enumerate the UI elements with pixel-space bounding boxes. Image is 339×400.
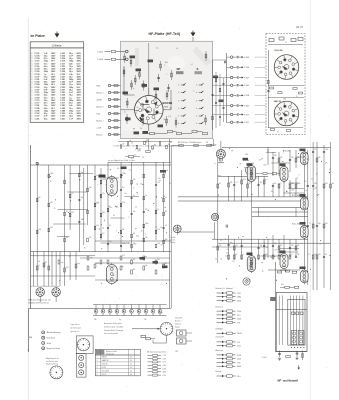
svg-text:40 n: 40 n	[69, 68, 73, 71]
svg-text:0,1: 0,1	[129, 169, 131, 171]
svg-text:HF: HF	[39, 197, 41, 199]
svg-text:b: b	[196, 101, 197, 103]
svg-text:50µ: 50µ	[81, 197, 84, 199]
svg-text:22n: 22n	[227, 249, 230, 251]
svg-text:470: 470	[325, 223, 328, 225]
svg-text:0,1: 0,1	[165, 225, 167, 227]
svg-text:330: 330	[39, 229, 42, 231]
svg-text:0,1: 0,1	[311, 179, 313, 181]
svg-text:EC: EC	[140, 183, 142, 185]
svg-text:10n: 10n	[263, 243, 266, 245]
svg-text:10 n: 10 n	[237, 376, 241, 378]
svg-text:EC: EC	[161, 244, 163, 246]
svg-text:12k: 12k	[140, 128, 143, 130]
svg-text:8 06: 8 06	[97, 113, 100, 115]
svg-text:10n: 10n	[137, 107, 140, 109]
svg-text:C 601: C 601	[97, 51, 104, 53]
svg-text:12k: 12k	[220, 258, 223, 260]
svg-text:ECLL 800: ECLL 800	[275, 50, 283, 52]
svg-text:2113B: 2113B	[97, 99, 103, 101]
svg-text:22n: 22n	[155, 227, 158, 229]
svg-text:1 M: 1 M	[237, 362, 241, 364]
svg-text:Skala: Skala	[47, 343, 52, 345]
svg-text:b: b	[178, 108, 179, 110]
svg-text:HF: HF	[133, 129, 135, 131]
svg-text:10n: 10n	[138, 150, 141, 152]
svg-text:25Ω: 25Ω	[237, 346, 241, 348]
svg-text:1n: 1n	[295, 162, 297, 164]
svg-text:Netz-Kontr.: Netz-Kontr.	[47, 337, 56, 340]
svg-text:b: b	[178, 101, 179, 103]
svg-text:HF: HF	[133, 233, 135, 235]
svg-text:220k: 220k	[237, 359, 241, 361]
svg-text:Buchse I: Buchse I	[97, 120, 104, 122]
svg-text:8,2: 8,2	[71, 193, 73, 195]
svg-text:b: b	[178, 116, 179, 118]
svg-text:a 108: a 108	[97, 127, 101, 129]
svg-text:6-polig: 6-polig	[171, 242, 176, 244]
svg-text:EC: EC	[220, 240, 222, 242]
svg-text:4,7k: 4,7k	[168, 116, 171, 118]
svg-text:8,2: 8,2	[134, 244, 136, 246]
svg-text:Zweit-LSP.: Zweit-LSP.	[216, 336, 225, 339]
svg-text:EC: EC	[113, 215, 115, 217]
svg-text:100k: 100k	[263, 165, 266, 167]
svg-text:4a: 4a	[285, 42, 287, 44]
svg-text:12k: 12k	[144, 319, 147, 321]
svg-text:Tonband: Tonband	[175, 323, 181, 325]
svg-text:b: b	[178, 123, 179, 125]
svg-text:0,1: 0,1	[124, 112, 126, 114]
svg-text:100k: 100k	[237, 319, 241, 321]
svg-text:F 611: F 611	[244, 114, 249, 116]
svg-text:EC: EC	[295, 255, 297, 257]
svg-text:10n: 10n	[232, 261, 235, 263]
svg-text:330: 330	[314, 183, 317, 185]
svg-text:1n: 1n	[96, 175, 98, 177]
svg-text:C 604: C 604	[97, 59, 104, 61]
svg-text:2k2: 2k2	[157, 243, 160, 245]
svg-text:22n: 22n	[108, 206, 111, 208]
svg-text:100k: 100k	[291, 189, 294, 191]
svg-text:1 M: 1 M	[237, 322, 241, 324]
svg-text:22n: 22n	[270, 257, 273, 259]
svg-text:5p: 5p	[305, 190, 307, 192]
svg-text:12k: 12k	[122, 202, 125, 204]
svg-text:470: 470	[50, 227, 53, 229]
svg-text:ECLL 800: ECLL 800	[292, 224, 300, 226]
svg-text:0,1: 0,1	[215, 258, 217, 260]
svg-text:HF: HF	[122, 229, 124, 231]
svg-text:b: b	[196, 108, 197, 110]
svg-text:0,1: 0,1	[191, 64, 193, 66]
svg-text:12k: 12k	[219, 245, 222, 247]
svg-text:0,1: 0,1	[165, 197, 167, 199]
svg-text:EC: EC	[170, 142, 172, 144]
svg-text:HF-Platte (HF-Teil): HF-Platte (HF-Teil)	[149, 32, 181, 36]
svg-text:470: 470	[226, 253, 229, 255]
svg-text:470: 470	[230, 182, 233, 184]
svg-text:6S5: 6S5	[245, 154, 248, 156]
svg-text:0,1: 0,1	[256, 177, 258, 179]
svg-text:EC 92: EC 92	[102, 374, 107, 376]
svg-text:4,7k: 4,7k	[243, 179, 246, 181]
svg-text:40 n: 40 n	[44, 102, 48, 105]
svg-text:C 201: C 201	[35, 118, 40, 120]
svg-text:100k: 100k	[145, 223, 149, 225]
svg-text:gesehen 4x: gesehen 4x	[71, 331, 79, 333]
svg-text:560k: 560k	[237, 301, 241, 303]
svg-text:b: b	[196, 85, 197, 87]
svg-text:330: 330	[325, 183, 328, 185]
svg-text:im Platze: im Platze	[31, 34, 45, 38]
svg-text:1MΩ: 1MΩ	[237, 297, 242, 299]
svg-text:Buchse I: Buchse I	[97, 106, 104, 108]
svg-text:Tonabn.: Tonabn.	[171, 237, 177, 239]
svg-text:100k: 100k	[50, 173, 54, 175]
svg-text:8,2: 8,2	[308, 254, 310, 256]
svg-text:M 1-4: M 1-4	[158, 313, 162, 315]
svg-text:12k: 12k	[157, 182, 160, 184]
svg-text:Mitte: Mitte	[97, 84, 101, 87]
svg-text:12k: 12k	[280, 157, 283, 159]
svg-text:4,7k: 4,7k	[66, 267, 69, 269]
svg-text:Erdung: Erdung	[216, 371, 222, 373]
svg-text:5p: 5p	[157, 209, 159, 211]
svg-text:GL 1: GL 1	[281, 284, 284, 286]
svg-text:50µ: 50µ	[124, 193, 127, 195]
svg-text:50µ: 50µ	[318, 223, 321, 225]
svg-text:4,7k: 4,7k	[134, 154, 137, 156]
svg-text:1n: 1n	[133, 88, 135, 90]
svg-text:470: 470	[259, 159, 262, 161]
svg-text:100k: 100k	[136, 235, 139, 237]
svg-text:C 145: C 145	[35, 81, 40, 84]
svg-text:S: S	[197, 67, 199, 71]
svg-text:C 149: C 149	[35, 83, 40, 86]
svg-text:HF: HF	[297, 245, 299, 247]
svg-text:Magisches Band: Magisches Band	[47, 348, 60, 350]
svg-text:6S2: 6S2	[284, 99, 287, 101]
svg-text:4,7k: 4,7k	[325, 163, 328, 165]
svg-text:100k: 100k	[81, 219, 85, 221]
svg-text:P: P	[215, 164, 216, 166]
svg-text:470: 470	[131, 158, 134, 160]
svg-text:ECLL800: ECLL800	[283, 150, 291, 152]
svg-text:EC: EC	[235, 254, 237, 256]
svg-text:4,7n: 4,7n	[69, 112, 73, 115]
svg-text:2k2: 2k2	[161, 172, 163, 174]
svg-text:Buchse I: Buchse I	[97, 92, 104, 94]
svg-text:0,1: 0,1	[163, 119, 165, 121]
svg-text:HF: HF	[163, 196, 165, 198]
svg-text:C-Werte: C-Werte	[52, 43, 62, 47]
svg-text:6-3: 6-3	[130, 374, 132, 376]
svg-text:2k2: 2k2	[280, 254, 283, 256]
svg-text:FM: FM	[29, 337, 32, 339]
svg-text:0,1: 0,1	[304, 181, 306, 183]
svg-text:6: 6	[97, 374, 98, 376]
svg-text:50µ: 50µ	[135, 113, 138, 115]
svg-text:F 605: F 605	[244, 105, 249, 107]
svg-text:F 618: F 618	[244, 95, 249, 97]
svg-text:0,1: 0,1	[235, 182, 237, 184]
svg-text:470: 470	[145, 209, 148, 211]
svg-text:50µ: 50µ	[230, 242, 233, 244]
svg-text:F 617: F 617	[244, 122, 249, 124]
svg-text:10n: 10n	[122, 144, 125, 146]
svg-text:der Ruckwand: der Ruckwand	[71, 327, 81, 329]
svg-text:12k: 12k	[332, 183, 335, 185]
svg-text:Lage und an: Lage und an	[71, 324, 80, 326]
svg-text:8,2: 8,2	[314, 149, 316, 151]
svg-text:UKW-Ant.: UKW-Ant.	[216, 328, 224, 331]
svg-text:8,2: 8,2	[142, 157, 144, 159]
svg-text:470: 470	[133, 179, 136, 181]
svg-text:47 k: 47 k	[237, 315, 241, 317]
svg-text:470: 470	[275, 250, 278, 252]
svg-text:Tl. 5230 Bstz. 471/1 Schaltpla: Tl. 5230 Bstz. 471/1 Schaltplan	[178, 141, 201, 144]
svg-text:b: b	[196, 123, 197, 125]
svg-text:75Ω: 75Ω	[237, 293, 241, 295]
svg-text:b: b	[178, 85, 179, 87]
svg-text:S: S	[269, 42, 270, 44]
svg-text:C 349: C 349	[60, 83, 65, 86]
svg-text:22n: 22n	[102, 193, 105, 195]
svg-text:100k: 100k	[165, 62, 168, 64]
svg-text:50µ: 50µ	[263, 254, 266, 256]
svg-text:8,2: 8,2	[66, 211, 68, 213]
svg-text:8,2: 8,2	[122, 187, 124, 189]
svg-text:F 602: F 602	[244, 85, 249, 87]
svg-text:470: 470	[122, 255, 125, 257]
svg-text:470: 470	[267, 150, 270, 152]
svg-text:10n: 10n	[96, 225, 99, 227]
svg-text:4,7k: 4,7k	[157, 229, 160, 231]
svg-text:EC: EC	[274, 183, 276, 185]
svg-text:470: 470	[96, 203, 99, 205]
svg-text:0,1: 0,1	[155, 98, 157, 100]
svg-text:0,1: 0,1	[109, 225, 111, 227]
svg-text:Buchse: Buchse	[97, 134, 103, 136]
svg-text:8,2: 8,2	[325, 254, 327, 256]
svg-text:Abschirm.: Abschirm.	[216, 349, 224, 352]
svg-text:330: 330	[139, 148, 142, 150]
svg-text:330: 330	[94, 319, 97, 321]
svg-text:22n: 22n	[168, 144, 171, 146]
svg-text:4,7n: 4,7n	[44, 57, 48, 60]
svg-text:2k2: 2k2	[319, 244, 321, 246]
svg-text:50µ: 50µ	[260, 245, 263, 247]
svg-text:100k: 100k	[122, 173, 126, 175]
svg-text:220k: 220k	[237, 311, 241, 313]
svg-text:50µ: 50µ	[145, 265, 148, 267]
svg-text:C 345: C 345	[60, 81, 65, 84]
svg-text:22n: 22n	[135, 207, 138, 209]
svg-text:5p: 5p	[119, 319, 121, 321]
svg-text:10n: 10n	[235, 245, 238, 247]
svg-text:8,2: 8,2	[183, 84, 185, 86]
svg-text:10n: 10n	[133, 211, 136, 213]
svg-text:8,2: 8,2	[329, 169, 331, 171]
svg-text:22n: 22n	[145, 237, 148, 239]
svg-text:EC: EC	[280, 245, 282, 247]
svg-text:C 141: C 141	[35, 78, 40, 81]
svg-text:2k2: 2k2	[66, 237, 69, 239]
svg-text:0,1: 0,1	[156, 47, 158, 49]
svg-text:50µ: 50µ	[77, 263, 80, 265]
svg-text:2k2: 2k2	[164, 240, 166, 242]
svg-text:50µ: 50µ	[89, 187, 92, 189]
svg-text:EABC80: EABC80	[210, 144, 217, 147]
svg-text:330: 330	[102, 212, 105, 214]
svg-text:b: b	[178, 92, 179, 94]
svg-text:2k2: 2k2	[157, 259, 159, 261]
svg-text:EC: EC	[249, 183, 251, 185]
svg-text:470k: 470k	[237, 355, 241, 357]
svg-text:10n: 10n	[226, 256, 229, 258]
svg-text:NF- und Netzteil: NF- und Netzteil	[278, 379, 299, 383]
svg-text:Buchse 1 u. Tonband: Buchse 1 u. Tonband	[216, 288, 233, 290]
svg-text:330: 330	[50, 202, 53, 204]
svg-text:F 706: F 706	[244, 67, 249, 69]
svg-text:680k: 680k	[237, 366, 241, 368]
svg-text:ECL 86: ECL 86	[243, 160, 249, 162]
svg-text:12k: 12k	[89, 237, 92, 239]
svg-text:Abstimm-Anzeige: Abstimm-Anzeige	[47, 331, 61, 334]
svg-text:100k: 100k	[325, 149, 328, 151]
svg-text:EABC 80: EABC 80	[274, 100, 281, 103]
svg-text:(Sender-Wahl) in Uhrzeiger: (Sender-Wahl) in Uhrzeiger	[104, 330, 124, 332]
svg-text:22n: 22n	[158, 178, 161, 180]
svg-text:5p: 5p	[145, 195, 147, 197]
svg-text:330: 330	[318, 254, 321, 256]
svg-text:HF 47: HF 47	[296, 25, 304, 29]
svg-text:6-polig: 6-polig	[175, 326, 180, 328]
svg-text:10n: 10n	[271, 191, 274, 193]
svg-text:2k2: 2k2	[133, 269, 135, 271]
svg-text:F 603: F 603	[244, 57, 249, 59]
svg-text:EC: EC	[45, 262, 47, 264]
svg-text:8,2: 8,2	[102, 233, 104, 235]
svg-text:0,1: 0,1	[219, 183, 221, 185]
svg-text:2k2: 2k2	[169, 183, 171, 185]
svg-text:240Ω: 240Ω	[237, 333, 242, 335]
svg-text:330: 330	[274, 155, 277, 157]
svg-text:8,2: 8,2	[265, 179, 267, 181]
svg-text:60: 60	[277, 132, 279, 134]
svg-text:SP: SP	[177, 67, 181, 71]
svg-text:b: b	[196, 92, 197, 94]
svg-text:LSP: LSP	[175, 351, 178, 353]
svg-text:C 341: C 341	[60, 78, 65, 81]
svg-text:b: b	[196, 116, 197, 118]
svg-text:8,2: 8,2	[131, 143, 133, 145]
svg-text:5p: 5p	[176, 48, 178, 50]
svg-text:10n: 10n	[133, 259, 136, 261]
svg-text:5p: 5p	[297, 177, 299, 179]
svg-text:F 607: F 607	[244, 77, 249, 79]
svg-text:C 401: C 401	[60, 117, 65, 120]
svg-text:HF: HF	[286, 191, 288, 193]
svg-text:Buchse 2: Buchse 2	[216, 306, 224, 308]
